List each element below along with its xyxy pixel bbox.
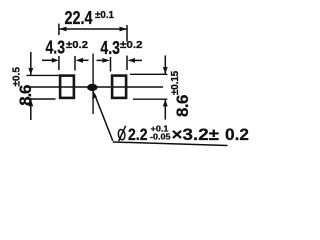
leader underline (113, 142, 228, 146)
dim 4.3 right inner arrow tail (97, 59, 104, 61)
vertical centerline (92, 54, 94, 115)
leader diagonal (95, 95, 113, 141)
dim 22.4 line (59, 28, 127, 30)
center hole dot (87, 84, 97, 91)
dim 4.3 left outside arrow head (52, 58, 59, 63)
svg-text:±0.5: ±0.5 (12, 67, 23, 87)
extension line left top (27, 74, 60, 76)
svg-text:2.2: 2.2 (128, 125, 148, 144)
right pad square (112, 76, 126, 98)
extension line 22.4 right (126, 25, 128, 42)
extension tick 4.3 right outer (126, 56, 128, 70)
dim 8.6 right lower arrow (163, 99, 168, 106)
svg-text:-0.05: -0.05 (150, 132, 171, 142)
dim 4.3 left inner arrow stub (82, 59, 89, 61)
svg-text:8.6: 8.6 (16, 85, 35, 106)
dim 22.4 left arrow (59, 27, 66, 32)
hole label phi symbol oval (118, 129, 126, 140)
svg-text:±0.1: ±0.1 (95, 10, 114, 21)
extension line 22.4 left (58, 24, 60, 35)
dim 4.3 left outside arrow tail (42, 59, 53, 61)
dim 22.4 right arrow (120, 27, 127, 32)
extension line left bottom (27, 98, 56, 100)
dim 4.3 right outer arrow head (128, 58, 135, 63)
dim 8.6 left line upper (30, 52, 32, 75)
dim 4.3 right outer arrow stub (134, 59, 142, 61)
svg-text:±0.2: ±0.2 (120, 40, 143, 51)
svg-text:4.3: 4.3 (46, 38, 66, 58)
dim 8.6 right line lower (164, 99, 166, 119)
dim 8.6 left lower arrow (28, 99, 33, 106)
dim 8.6 left upper arrow (28, 68, 33, 75)
dim 4.3 left inner arrow head (76, 58, 83, 63)
leader arrow head (92, 91, 97, 99)
extension tick 4.3 left inner (74, 56, 76, 71)
dim 8.6 right upper arrow (163, 67, 168, 74)
horizontal centerline (27, 86, 163, 88)
svg-text:0.2: 0.2 (225, 125, 249, 144)
dim 8.6 left line lower (30, 99, 32, 120)
svg-text:22.4: 22.4 (65, 8, 93, 28)
svg-text:±0.2: ±0.2 (66, 40, 88, 51)
extension tick 4.3 right inner (110, 57, 112, 72)
dim 8.6 right line upper (164, 55, 166, 74)
dim 4.3 right inner arrow head (103, 58, 110, 63)
extension line right bottom (133, 98, 167, 100)
svg-text:4.3: 4.3 (100, 38, 120, 58)
left pad square (60, 76, 74, 98)
svg-text:8.6: 8.6 (173, 95, 192, 117)
extension line right top (130, 73, 167, 75)
extension tick 4.3 left outer (58, 56, 60, 70)
svg-text:×3.2±: ×3.2± (172, 125, 220, 144)
hole label phi symbol slash (119, 126, 126, 141)
svg-text:±0.15: ±0.15 (170, 70, 181, 95)
